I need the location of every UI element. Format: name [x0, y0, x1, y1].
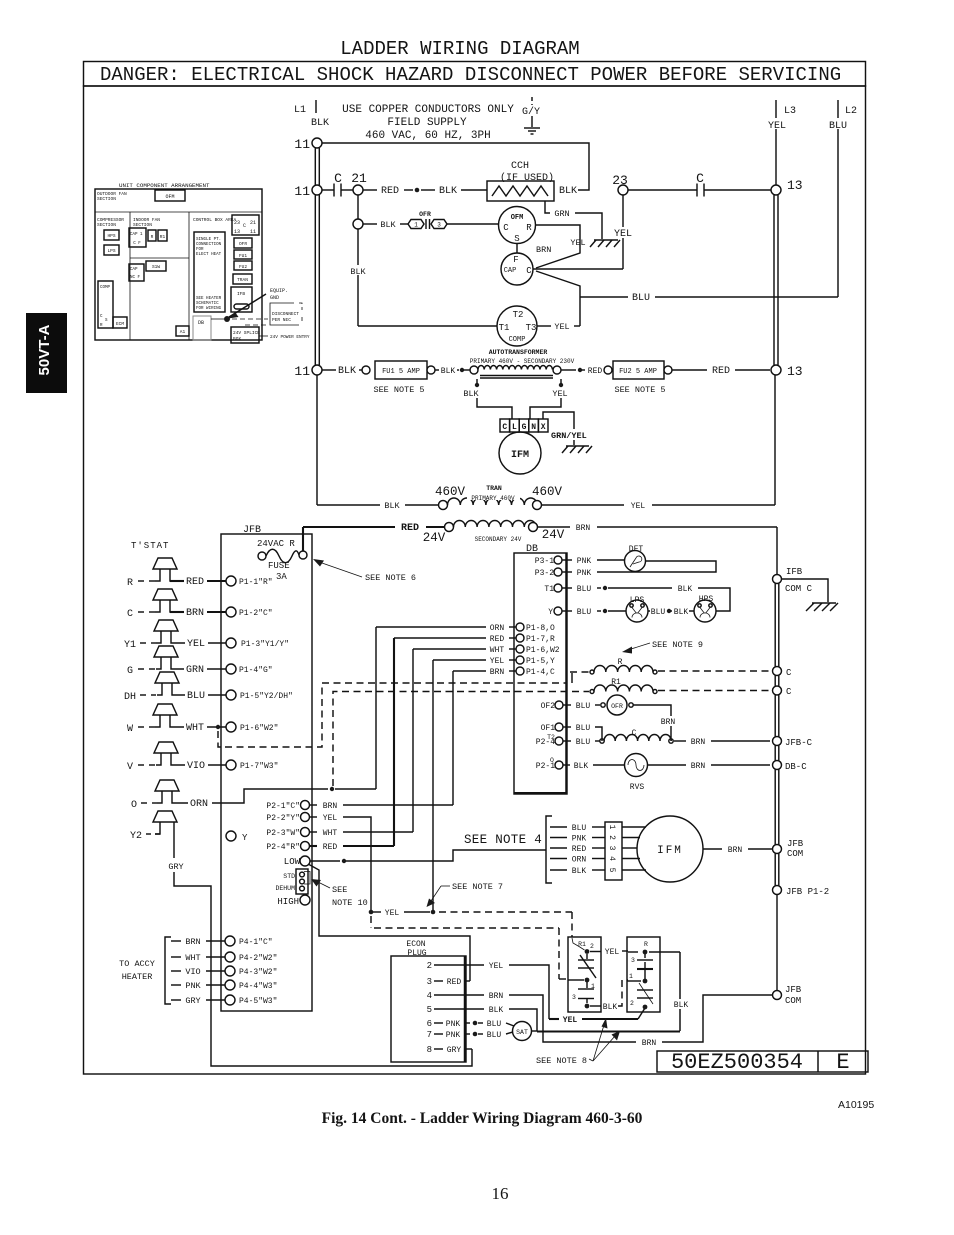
svg-text:BRN: BRN [323, 802, 338, 811]
svg-text:P1-5"Y2/DH": P1-5"Y2/DH" [240, 692, 293, 701]
svg-text:C: C [696, 171, 704, 186]
box 24V splice mini [231, 327, 259, 343]
svg-text:PNK: PNK [577, 569, 592, 578]
connector JFB P1-4 G [226, 664, 273, 675]
thermostat bulb V [127, 742, 226, 773]
connector JFB P2-1 C [266, 801, 453, 812]
node JFB COM mid [773, 839, 804, 859]
svg-text:RED: RED [712, 366, 730, 377]
switch HPS [694, 595, 716, 622]
svg-text:24V POWER ENTRY: 24V POWER ENTRY [270, 335, 310, 340]
svg-text:(IF USED): (IF USED) [500, 172, 554, 184]
svg-text:BLK: BLK [559, 186, 577, 197]
node JFB P1-2 [773, 886, 830, 898]
svg-text:SEE NOTE 7: SEE NOTE 7 [452, 882, 503, 892]
svg-text:3: 3 [607, 846, 616, 851]
wire CCH bottom GRN to ground [545, 201, 602, 239]
thermostat bulb DH [124, 672, 226, 703]
box CAP1 mini [129, 228, 146, 247]
svg-text:P1-4,C: P1-4,C [526, 668, 555, 677]
svg-text:CONTROL BOX AREA: CONTROL BOX AREA [193, 217, 237, 223]
svg-text:DB: DB [198, 320, 204, 326]
reversing valve RVS with P2-1 [536, 754, 770, 793]
wire IFM ORN [550, 856, 605, 865]
svg-text:GRN: GRN [554, 209, 569, 219]
svg-text:BRN: BRN [490, 668, 505, 677]
field supply notes [342, 104, 514, 142]
node L2 terminal [825, 100, 857, 297]
svg-text:50VT-A: 50VT-A [36, 324, 53, 375]
svg-text:ECON: ECON [406, 940, 425, 949]
svg-text:T2: T2 [513, 310, 524, 320]
svg-text:RVS: RVS [630, 783, 645, 792]
diagram frame [84, 86, 866, 1074]
svg-text:YEL: YEL [563, 1016, 578, 1025]
wire vertical RED bold [393, 638, 395, 846]
svg-text:DH: DH [124, 692, 136, 703]
contact C (compressor contactor) top row [322, 171, 367, 197]
motor IFM [637, 816, 772, 882]
svg-text:21: 21 [250, 220, 256, 226]
svg-text:CCH: CCH [511, 161, 529, 172]
thermostat T'STAT heading [131, 541, 169, 551]
svg-text:L: L [512, 423, 517, 432]
wire YEL riser to node 23 [611, 195, 635, 269]
svg-text:13: 13 [787, 364, 803, 379]
connector DB P1-6,W2 [413, 645, 560, 655]
wire econ 2 YEL [427, 961, 549, 1019]
box ECM mini [113, 317, 127, 328]
board JFB box [221, 525, 312, 1011]
note SEE NOTE 9 [622, 640, 703, 654]
connector DB OF2 [541, 701, 600, 711]
svg-text:BLK: BLK [674, 1001, 689, 1010]
svg-text:P3-2: P3-2 [535, 569, 554, 578]
wire GRN/YEL to ground [543, 412, 597, 445]
contact OFR (plug 1-3) [363, 211, 499, 230]
svg-text:ELECT HEAT: ELECT HEAT [196, 253, 222, 257]
svg-text:C: C [786, 687, 792, 697]
svg-text:3A: 3A [276, 572, 287, 582]
svg-text:COMP: COMP [509, 336, 526, 344]
svg-text:Y: Y [548, 608, 553, 617]
svg-text:BRN: BRN [661, 718, 676, 727]
thermostat bulb W [127, 704, 226, 735]
svg-text:C: C [334, 171, 342, 186]
svg-text:PNK: PNK [446, 1020, 461, 1029]
wire IFM PNK [550, 835, 605, 844]
svg-text:BRN: BRN [185, 937, 200, 947]
svg-text:OF1: OF1 [541, 724, 556, 733]
connector IFM plug 1-5 [605, 822, 646, 880]
svg-text:P3-1: P3-1 [535, 557, 554, 566]
svg-text:TO ACCY: TO ACCY [119, 959, 155, 969]
connector STD DEHUM [275, 869, 310, 894]
wire R1 YEL to R [605, 948, 628, 957]
svg-text:N: N [531, 423, 536, 432]
svg-text:3: 3 [631, 957, 635, 964]
svg-text:23: 23 [234, 220, 240, 226]
svg-text:BLU: BLU [576, 702, 591, 711]
wire DFT to P3-2 [597, 561, 716, 572]
board DB box [514, 544, 567, 794]
box OFR mini [234, 238, 252, 248]
svg-text:SEE NOTE 5: SEE NOTE 5 [373, 385, 424, 395]
svg-text:P1-8,O: P1-8,O [526, 624, 555, 633]
svg-text:11: 11 [250, 229, 256, 235]
wire COMP T3 YEL [538, 322, 581, 332]
svg-text:CONNECTION: CONNECTION [196, 243, 222, 247]
wire dashed YEL to R1 coil contact [439, 912, 572, 937]
box terminal mini [232, 215, 259, 235]
box IFB mini [231, 287, 252, 312]
svg-text:24VAC R: 24VAC R [257, 539, 295, 549]
svg-text:BLU: BLU [651, 608, 666, 617]
svg-text:AUTOTRANSFORMER: AUTOTRANSFORMER [489, 349, 548, 356]
svg-text:OFM: OFM [165, 194, 174, 200]
ground at IFM [562, 446, 592, 453]
svg-text:YEL: YEL [385, 909, 400, 918]
thermostat bulb C [127, 589, 226, 620]
svg-text:CAP 1: CAP 1 [130, 233, 143, 237]
svg-text:VIO: VIO [187, 761, 205, 772]
connector JFB P2-3 W [266, 828, 413, 839]
connector DB T1 [544, 584, 730, 611]
svg-text:SEE NOTE 6: SEE NOTE 6 [365, 573, 416, 583]
relay coil R1 [572, 678, 770, 694]
svg-text:BLU: BLU [829, 121, 847, 132]
svg-text:13: 13 [234, 229, 240, 235]
svg-text:P2-2"Y": P2-2"Y" [266, 814, 300, 823]
wire vertical ORN [375, 627, 377, 789]
svg-text:BLU: BLU [577, 585, 592, 594]
box S1W mini [146, 261, 166, 271]
svg-text:P2-1"C": P2-1"C" [266, 802, 300, 811]
svg-text:ORN: ORN [490, 624, 505, 633]
svg-text:YEL: YEL [554, 322, 569, 332]
connector plug C L G N X [500, 419, 548, 432]
svg-text:P4-1"C": P4-1"C" [239, 938, 273, 947]
thermostat bulb G [127, 646, 226, 677]
svg-text:3: 3 [427, 977, 432, 987]
connector HIGH [277, 895, 310, 907]
svg-text:IFM: IFM [511, 450, 529, 461]
svg-text:P1-2"C": P1-2"C" [239, 609, 273, 618]
svg-text:P2-4"R": P2-4"R" [266, 843, 300, 852]
svg-text:S: S [514, 234, 519, 244]
svg-text:DISCONNECT: DISCONNECT [272, 311, 299, 317]
svg-text:7: 7 [427, 1030, 432, 1040]
svg-text:BRN: BRN [642, 1039, 657, 1048]
svg-text:YEL: YEL [552, 389, 567, 399]
svg-text:SECTION: SECTION [133, 222, 152, 228]
svg-text:2: 2 [590, 943, 594, 950]
wire CAP C to BLU to L2 [536, 271, 838, 326]
svg-text:P1-1"R": P1-1"R" [239, 578, 273, 587]
svg-text:L3: L3 [784, 106, 796, 117]
wire vertical BRN [452, 671, 454, 805]
box OFM mini [155, 190, 185, 201]
50VT-A side tab [26, 313, 67, 393]
thermostat bulb Y2 [130, 811, 472, 1066]
svg-text:COM: COM [787, 849, 803, 859]
wire YEL economizer junction [369, 909, 436, 918]
connector DB OF1 [541, 723, 602, 741]
ground at GRN [567, 237, 620, 248]
svg-text:WHT: WHT [490, 646, 505, 655]
node 13 row 370 [771, 364, 803, 379]
part number box [657, 1050, 868, 1075]
note SEE NOTE 6 [313, 559, 416, 583]
wire LOW drop to econ RED [309, 865, 470, 982]
svg-text:BRN: BRN [691, 738, 706, 747]
svg-text:P4-3"W2": P4-3"W2" [239, 968, 277, 977]
wire BLK down to COMP T1 [348, 229, 497, 326]
svg-text:PNK: PNK [185, 981, 201, 991]
wire CAP C to YEL riser [533, 268, 623, 270]
svg-text:OFR: OFR [239, 241, 247, 247]
thermostat bulb Y1 [124, 620, 226, 651]
wire L1 rail to TRAN [317, 375, 439, 511]
ground G/Y [522, 97, 540, 134]
svg-text:PER NEC: PER NEC [272, 317, 291, 323]
svg-text:UNIT COMPONENT ARRANGEMENT: UNIT COMPONENT ARRANGEMENT [119, 182, 210, 189]
svg-text:BLU: BLU [576, 738, 591, 747]
svg-text:G: G [522, 423, 527, 432]
svg-text:G/Y: G/Y [522, 106, 540, 118]
svg-text:3: 3 [572, 994, 576, 1001]
svg-text:OFM: OFM [511, 214, 524, 222]
svg-text:FU1 5 AMP: FU1 5 AMP [382, 368, 420, 376]
svg-text:P2-4: P2-4 [536, 738, 555, 747]
svg-text:SEE NOTE 9: SEE NOTE 9 [652, 640, 703, 650]
box R mini [148, 230, 156, 241]
wire dashed equip [232, 318, 268, 320]
note SEE NOTE 4 [464, 833, 542, 847]
switch LPS [626, 596, 648, 622]
svg-text:YEL: YEL [631, 502, 646, 511]
relay OFR [601, 695, 678, 741]
node 11 top [294, 137, 589, 190]
svg-text:4: 4 [427, 991, 432, 1001]
svg-text:4: 4 [607, 856, 616, 861]
svg-text:HPS: HPS [107, 233, 115, 239]
svg-text:TRAN: TRAN [486, 485, 502, 492]
svg-text:C: C [503, 223, 509, 233]
note SEE NOTE 8 [536, 1018, 620, 1066]
svg-text:24V: 24V [423, 531, 446, 545]
svg-text:GRY: GRY [185, 996, 200, 1006]
svg-text:EQUIP.: EQUIP. [270, 288, 288, 294]
svg-text:RED: RED [323, 843, 338, 852]
connector JFB P2-4 R [266, 842, 394, 853]
svg-text:BRN: BRN [186, 608, 204, 619]
contact R box [627, 937, 660, 1012]
connector JFB P1-6 W2 [226, 722, 278, 733]
svg-text:13: 13 [787, 178, 803, 193]
connector accessory bracket [119, 937, 171, 1004]
box DB mini [193, 316, 211, 340]
svg-text:BRN: BRN [576, 524, 591, 533]
transformer TRAN primary [435, 485, 563, 510]
svg-text:P1-7,R: P1-7,R [526, 635, 555, 644]
motor IFM upper [499, 432, 541, 474]
svg-text:JFB-C: JFB-C [785, 738, 813, 748]
svg-text:TRAN: TRAN [237, 277, 248, 283]
fuse FU1 row [322, 361, 470, 395]
wire econ 5 BLK [427, 1005, 680, 1032]
motor OFM [499, 207, 536, 245]
wire OFM S to CAP F BRN [517, 244, 551, 256]
box A1 mini [176, 326, 189, 336]
svg-text:R: R [127, 578, 133, 589]
node 11 row 370 [294, 364, 322, 379]
wire econ 6 PNK BLU [427, 1019, 514, 1029]
connector DB P3-1 [535, 556, 625, 566]
box CAP mini [129, 264, 144, 281]
node 23 [612, 173, 628, 195]
unit component arrangement [95, 182, 310, 343]
wire BLK vertical to R contact [649, 952, 691, 1031]
svg-text:BLK: BLK [574, 762, 589, 771]
svg-text:16: 16 [492, 1184, 509, 1203]
svg-text:T'STAT: T'STAT [131, 541, 169, 551]
svg-text:T1: T1 [499, 323, 510, 333]
connector DB P1-5,Y [433, 656, 555, 666]
node JFB-C [773, 737, 813, 749]
svg-text:ECM: ECM [116, 321, 124, 327]
connector Y aux [226, 831, 248, 843]
svg-text:ORN: ORN [190, 799, 208, 810]
title [340, 38, 579, 60]
node 11 row2 [294, 184, 322, 199]
svg-text:RED: RED [588, 367, 603, 376]
svg-text:11: 11 [294, 184, 310, 199]
svg-text:6: 6 [427, 1019, 432, 1029]
svg-text:PRIMARY 460V - SECONDARY 230V: PRIMARY 460V - SECONDARY 230V [470, 358, 575, 365]
wire vertical YEL [432, 660, 434, 910]
wire TRAN secondary BRN to rail [538, 524, 778, 574]
svg-text:X: X [541, 423, 546, 432]
svg-text:HEATER: HEATER [122, 972, 153, 982]
svg-text:PNK: PNK [572, 835, 587, 844]
connector JFB P2-2 Y [266, 813, 371, 911]
relay coil R [570, 658, 770, 674]
svg-text:IFB: IFB [237, 291, 245, 297]
svg-text:11: 11 [294, 364, 310, 379]
wire L1 double rail [315, 148, 319, 365]
svg-text:BLU: BLU [577, 608, 592, 617]
svg-text:JFB: JFB [787, 839, 804, 849]
svg-text:NC F: NC F [130, 276, 141, 280]
caption texts [322, 1099, 875, 1203]
box COMP mini [98, 281, 113, 328]
connector JFB P1-3 [226, 638, 289, 649]
svg-text:BLK: BLK [380, 220, 396, 230]
connector JFB P1-7 W3 [226, 760, 278, 771]
svg-text:8: 8 [427, 1045, 432, 1055]
svg-text:C: C [127, 609, 133, 620]
node L1 terminal [294, 100, 329, 129]
sensor DFT [625, 545, 646, 572]
note SEE NOTE 7 [427, 882, 504, 907]
connector LOW [284, 850, 546, 867]
svg-text:21: 21 [351, 171, 367, 186]
svg-text:BLK: BLK [678, 585, 693, 594]
svg-text:OFR: OFR [419, 211, 431, 218]
svg-text:V: V [127, 762, 133, 773]
svg-text:R: R [644, 941, 648, 948]
svg-text:OF2: OF2 [541, 702, 556, 711]
svg-text:DEHUM: DEHUM [275, 885, 295, 892]
svg-text:PNK: PNK [446, 1031, 461, 1040]
wire autotransformer tap YEL [530, 379, 568, 419]
svg-text:YEL: YEL [605, 948, 620, 957]
svg-text:NOTE 10: NOTE 10 [332, 898, 368, 908]
wire econ YEL bold bottom [549, 1008, 645, 1025]
svg-text:LPS: LPS [107, 248, 115, 254]
svg-text:T1: T1 [544, 585, 554, 594]
svg-text:5: 5 [607, 868, 616, 873]
svg-text:SECTION: SECTION [97, 222, 116, 228]
connector P4-3 W2 [171, 966, 277, 977]
svg-text:O: O [131, 800, 137, 811]
svg-text:ORN: ORN [572, 856, 587, 865]
svg-text:E: E [836, 1050, 849, 1075]
svg-text:C: C [526, 266, 532, 276]
node 21 [353, 185, 363, 195]
svg-text:1: 1 [414, 222, 418, 229]
svg-text:R: R [151, 234, 154, 240]
svg-text:BLK: BLK [350, 267, 366, 277]
svg-text:P1-3"Y1/Y": P1-3"Y1/Y" [241, 640, 289, 649]
connector JFB P1-2 C [226, 607, 273, 618]
svg-text:50EZ500354: 50EZ500354 [671, 1050, 803, 1075]
node IFB COM C [773, 567, 829, 602]
svg-text:FU1: FU1 [239, 253, 247, 259]
svg-text:C: C [786, 668, 792, 678]
connector JFB P1-5 [226, 690, 293, 701]
svg-text:P2-3"W": P2-3"W" [266, 829, 300, 838]
thermostat bulb R [127, 558, 226, 589]
svg-text:Y2: Y2 [130, 831, 142, 842]
svg-text:P2-1: P2-1 [536, 762, 555, 771]
svg-text:RED: RED [447, 978, 462, 987]
svg-text:P1-5,Y: P1-5,Y [526, 657, 555, 666]
svg-text:PNK: PNK [577, 557, 592, 566]
svg-text:GRN/YEL: GRN/YEL [551, 431, 587, 441]
autotransformer coil [470, 349, 604, 378]
connector P4-5 W3 [171, 995, 277, 1006]
wire IFM BLK [550, 867, 605, 876]
svg-text:BLU: BLU [572, 824, 587, 833]
wire econ 3 RED [427, 977, 470, 987]
box FU1 mini [234, 250, 252, 259]
svg-text:R1: R1 [160, 234, 166, 240]
svg-text:BLK: BLK [572, 867, 587, 876]
connector DB P1-4,C [453, 667, 555, 677]
wire econ 7 PNK BLU [427, 1030, 513, 1040]
svg-text:1: 1 [629, 973, 633, 980]
svg-text:DANGER: ELECTRICAL SHOCK HAZAR: DANGER: ELECTRICAL SHOCK HAZARD DISCONNE… [100, 64, 841, 86]
svg-text:L2: L2 [845, 106, 857, 117]
svg-text:BRN: BRN [536, 245, 551, 255]
svg-text:BLK: BLK [441, 367, 456, 376]
svg-text:SINGLE PT.: SINGLE PT. [196, 238, 221, 242]
svg-text:GND: GND [270, 295, 279, 301]
svg-text:Y1: Y1 [124, 640, 136, 651]
svg-text:FU2: FU2 [239, 264, 247, 270]
